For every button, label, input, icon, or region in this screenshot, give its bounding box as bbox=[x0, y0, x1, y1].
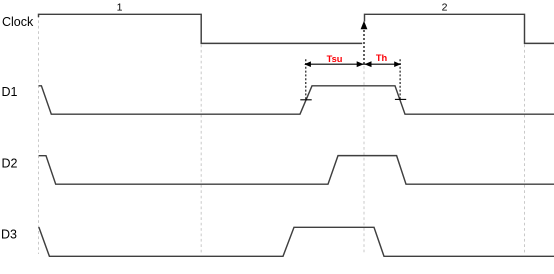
wire D1 waveform bbox=[39, 86, 554, 114]
svg-text:D2: D2 bbox=[2, 157, 18, 171]
grid dashed guide at clock rise (below arrow) bbox=[363, 66, 365, 254]
grid dashed guide at clock fall 1 bbox=[200, 45, 202, 255]
svg-text:D3: D3 bbox=[1, 227, 17, 241]
dashed arrow at clock rising edge (points up) bbox=[363, 29, 365, 64]
arrowhead right (Th end) bbox=[394, 61, 401, 67]
grid dashed guide at clock fall 2 bbox=[524, 45, 526, 255]
wire D2 waveform bbox=[39, 156, 554, 185]
wire Clock waveform bbox=[39, 14, 554, 43]
svg-text:Th: Th bbox=[376, 53, 388, 63]
grid dashed guide at clock start bbox=[38, 15, 40, 254]
arrowhead center left-pointing (Th start) bbox=[364, 61, 371, 67]
svg-text:D1: D1 bbox=[2, 85, 18, 99]
Tsu/Th measure line bbox=[305, 63, 401, 65]
dashed drop line at D1 fall midpoint bbox=[399, 59, 401, 99]
svg-text:2: 2 bbox=[442, 1, 448, 13]
svg-text:Tsu: Tsu bbox=[327, 54, 343, 64]
tick at D1 rise crossing bbox=[300, 99, 311, 101]
arrowhead left (Tsu start) bbox=[304, 61, 311, 67]
wire D3 waveform bbox=[39, 227, 554, 256]
tick at D1 fall crossing bbox=[395, 98, 406, 100]
dashed drop line at D1 rise midpoint bbox=[305, 59, 307, 100]
svg-text:1: 1 bbox=[117, 1, 123, 13]
arrowhead center right-pointing (Tsu end) bbox=[357, 61, 364, 67]
svg-text:Clock: Clock bbox=[2, 15, 34, 29]
